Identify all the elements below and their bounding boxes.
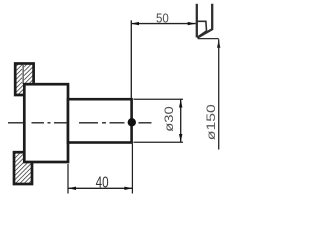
svg-text:40: 40: [96, 175, 109, 192]
extension lines for 40: [68, 144, 132, 194]
dimension 40 (line with arrows): [68, 187, 132, 190]
workpiece flange (large diameter): [24, 84, 68, 162]
dimension o150 (half dimension line, arrow up): [217, 39, 220, 149]
extension lines for o30: [134, 99, 184, 142]
svg-text:50: 50: [156, 10, 169, 25]
chuck jaw bottom (hatched): [14, 152, 32, 184]
svg-text:ø150: ø150: [204, 104, 218, 141]
centerline (axis, dash-dot): [8, 122, 152, 124]
extension line: shaft end face up to 50-dim: [130, 20, 132, 98]
svg-text:ø30: ø30: [164, 106, 176, 132]
workpiece shaft o30: [68, 99, 132, 142]
node: tool contact point (dot on shaft end face): [128, 118, 136, 126]
dimension o30 (line with arrows): [179, 100, 182, 143]
dimension 50 (line with arrows): [131, 22, 196, 25]
cutting tool (lathe tool with insert): [197, 4, 212, 38]
chuck jaw top (hatched): [15, 64, 33, 96]
tool tip height line: [198, 38, 219, 40]
